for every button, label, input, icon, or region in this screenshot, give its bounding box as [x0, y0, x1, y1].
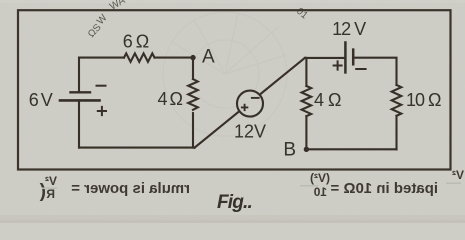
wire: node A down to resistor	[192, 58, 194, 79]
battery V1 plus sign	[98, 107, 106, 115]
faint mirrored show-through text bottom-right: "ipated in 10Ω = (V10)²/10"	[300, 168, 464, 199]
resistor 4ohm left (vertical zigzag)	[188, 79, 198, 110]
wire: bottom of left loop	[79, 147, 195, 149]
wire: right-top horizontal to battery	[305, 57, 346, 59]
battery V2 minus sign	[356, 68, 365, 70]
wire: resistor to node A	[155, 57, 193, 59]
battery V2 12V: long plate	[344, 43, 347, 73]
wire: bottom of right section	[306, 148, 396, 150]
wire: left vertical (top)	[78, 58, 80, 93]
battery V1 6V: long plate (+)	[60, 99, 100, 102]
source minus sign	[251, 97, 260, 99]
wire: top-left from battery top to resistor	[79, 57, 124, 59]
faint show-through arcs (back of page)	[163, 12, 287, 136]
wire: middle vertical top (junction to 4ohm)	[305, 58, 307, 86]
battery V2 12V: short plate	[352, 50, 355, 65]
resistor 10ohm (vertical zigzag)	[392, 85, 402, 116]
faint show-through rotated letters	[86, 0, 310, 40]
wire: resistor bottom to bottom wire	[192, 113, 194, 148]
wire: right vertical bottom	[395, 116, 397, 150]
battery V2 plus sign	[334, 61, 342, 69]
wire: left vertical (bottom)	[78, 100, 80, 147]
source plus sign	[241, 104, 248, 111]
source circle 12V	[237, 91, 263, 117]
battery V1 minus sign	[97, 85, 106, 87]
resistor 4ohm right (vertical zigzag)	[302, 86, 312, 116]
wire: middle vertical bottom to B	[305, 116, 307, 149]
node A dot	[190, 55, 195, 60]
faint mirrored show-through text bottom-left: "Formula is power = V²/R"	[39, 174, 190, 202]
resistor R 6ohm (horizontal zigzag)	[124, 53, 155, 61]
node B dot	[304, 147, 309, 152]
battery V1 6V: short plate (-)	[71, 91, 91, 93]
wire: diagonal through source	[195, 58, 305, 148]
border frame of figure	[18, 10, 451, 169]
wire: battery to right corner, down	[353, 58, 396, 85]
